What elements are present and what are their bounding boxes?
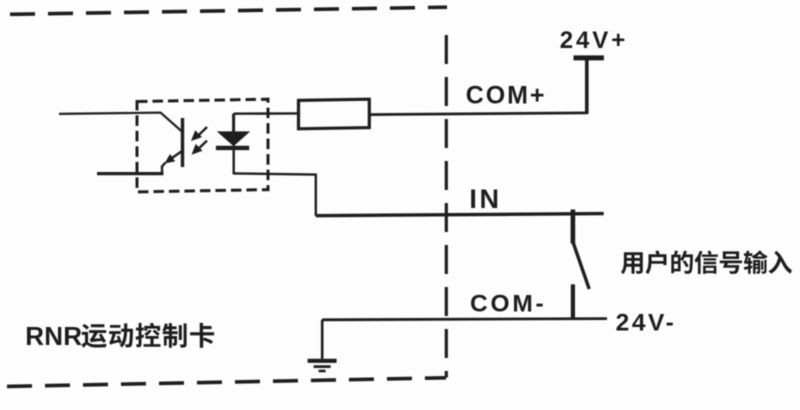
transistor Q1 base bar bbox=[181, 118, 184, 167]
ground bar 1 bbox=[308, 359, 337, 363]
dashed border bottom edge bbox=[7, 378, 446, 387]
wire: input pin 2 (bottom-left) bbox=[97, 172, 164, 175]
wire: COM+ net bbox=[369, 113, 587, 115]
ground bar 3 bbox=[319, 370, 326, 373]
LED D1 cathode bar bbox=[216, 146, 249, 150]
switch S1 blade bbox=[573, 243, 589, 289]
svg-text:COM-: COM- bbox=[470, 291, 547, 318]
resistor R1 bbox=[299, 99, 370, 129]
svg-text:24V-: 24V- bbox=[616, 310, 677, 337]
wire: LED anode to resistor bbox=[234, 112, 299, 115]
dashed border top edge bbox=[10, 7, 447, 14]
switch S1 lower contact bbox=[571, 284, 575, 319]
svg-text:24V+: 24V+ bbox=[560, 27, 628, 54]
LED D1 cathode wire down bbox=[232, 150, 234, 174]
label motion control card (Chinese) bbox=[82, 323, 215, 348]
ground riser wire bbox=[321, 320, 324, 359]
wire: transistor emitter lead bbox=[167, 151, 182, 162]
wire: LED cathode horizontal run bbox=[234, 173, 316, 174]
wire: emitter elbow bbox=[162, 163, 166, 175]
LED D1 anode wire bbox=[232, 114, 235, 133]
wire: drop to IN line bbox=[315, 174, 317, 216]
light arrow 1 head bbox=[191, 130, 202, 141]
dashed border right edge bbox=[445, 35, 448, 378]
wire: COM- net bbox=[322, 319, 607, 320]
wire: IN net bbox=[316, 214, 604, 216]
svg-text:COM+: COM+ bbox=[466, 81, 547, 109]
wire: 24V+ stem bbox=[585, 60, 589, 115]
svg-text:RNR: RNR bbox=[25, 321, 82, 351]
24V+ terminal bar bbox=[574, 55, 604, 60]
switch S1 upper contact bbox=[571, 210, 576, 244]
light arrow 2 head bbox=[192, 144, 203, 155]
light arrow 2 tail bbox=[200, 141, 208, 148]
svg-text:IN: IN bbox=[469, 184, 501, 214]
wire: input pin 1 (top-left) bbox=[59, 113, 161, 114]
light arrow 1 tail bbox=[199, 127, 207, 135]
label user signal input (Chinese) bbox=[621, 250, 792, 274]
transistor emitter arrowhead bbox=[165, 154, 176, 164]
ground bar 2 bbox=[314, 365, 331, 368]
optocoupler dashed box U1 bbox=[137, 99, 268, 192]
LED D1 triangle bbox=[217, 131, 250, 146]
wire: transistor collector lead bbox=[161, 113, 183, 132]
